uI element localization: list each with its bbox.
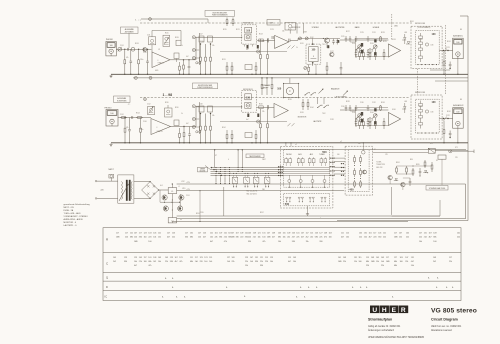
svg-text:68k: 68k [148,261,151,263]
resistor R142 inside join2 [419,123,423,126]
feedback box Z101 inner mark [151,39,154,42]
svg-text:500: 500 [358,143,361,145]
key switch box TA1 [232,177,238,183]
bus wire 4 [211,172,283,174]
svg-text:VG 805 stereo: VG 805 stereo [431,307,477,314]
svg-text:AUSGANG R: AUSGANG R [453,104,464,107]
resistor R170 mid dropper2 [326,62,328,66]
filter join module outer box [411,26,442,68]
wire lower return ch2 [220,121,287,123]
svg-text:FUSE : 2A: FUSE : 2A [64,209,74,212]
resistor R116 dropper [255,130,257,134]
svg-text:GERÄTE: GERÄTE [200,168,205,171]
resistor R120 series [266,105,268,109]
svg-text:Δ: Δ [226,286,228,289]
svg-text:1M0: 1M0 [231,237,235,239]
wire power feed riser x200 [199,191,201,222]
svg-text:123: 123 [179,257,182,259]
return rail channel 1 [133,77,468,79]
svg-text:22k: 22k [383,237,386,239]
resistor R305 [412,168,414,170]
svg-text:Q: Q [106,276,108,280]
svg-text:100: 100 [400,261,403,263]
svg-text:R207: R207 [260,212,264,214]
svg-text:105: 105 [406,233,409,235]
potentiometer P101 bass [358,45,362,49]
svg-text:2k2: 2k2 [424,237,427,239]
svg-text:22k: 22k [245,261,248,263]
svg-text:C131: C131 [372,32,376,34]
svg-text:117: 117 [394,233,397,235]
capacitor C107 to ground [188,60,190,67]
switch matrix module inner box bottom [284,193,330,206]
svg-text:LAUTSTÄRKE: LAUTSTÄRKE [335,96,348,99]
svg-text:115: 115 [265,257,268,259]
wire to filter stage ch2 [181,126,196,128]
resistor R138 inside join2 [419,110,423,113]
potentiometer diamond P103 [367,48,372,53]
svg-text:LAUTSPR. : 0: LAUTSPR. : 0 [64,224,78,227]
svg-text:S104: S104 [310,107,314,109]
svg-text:107: 107 [301,233,304,235]
wire 400 box output right [373,151,429,153]
svg-text:15k: 15k [376,261,379,263]
svg-text:47k: 47k [224,241,227,243]
connector ST301 [449,150,452,153]
svg-text:ST: ST [215,155,217,157]
svg-text:15k: 15k [158,237,161,239]
bridge rectifier GL1 [142,182,159,199]
svg-text:68k: 68k [190,237,193,239]
svg-text:UHER WERKE MÜNCHEN 562-4957: UHER WERKE MÜNCHEN 562-4957 790/9202/888… [368,336,424,339]
connector J2a [144,98,147,101]
wire regulator mid link [160,201,180,203]
power rail +21V [177,183,466,185]
svg-text:1k0: 1k0 [381,261,384,263]
transformer TR1 core [126,180,128,201]
UHER logo [370,306,408,314]
svg-text:123: 123 [200,257,203,259]
svg-text:105: 105 [113,257,116,259]
svg-text:Valid from ser. no. 19092 001: Valid from ser. no. 19092 001 [431,325,462,328]
svg-text:117: 117 [195,257,198,259]
svg-text:15k: 15k [399,237,402,239]
resistor R108 to ground [140,118,142,129]
wire op-amp U101 output [170,59,181,61]
resistor R106 to ground [124,118,126,129]
svg-text:220n: 220n [140,129,144,131]
svg-text:1k0: 1k0 [204,261,207,263]
svg-text:100: 100 [311,49,316,51]
svg-text:TA2 100 AUFN.: TA2 100 AUFN. [246,190,258,193]
resistor R123 series [259,39,263,42]
wire to filter stage [181,59,196,61]
feedback network box Z102 [163,35,170,46]
svg-text:TAST: TAST [262,158,266,161]
svg-text:330: 330 [319,241,322,243]
svg-text:STEREO: STEREO [312,27,320,29]
resistor R161 tone ch1 [363,49,365,53]
wire filter2 to amp [257,106,274,108]
svg-text:100: 100 [432,101,437,104]
svg-text:115: 115 [209,257,212,259]
svg-text:22k: 22k [165,261,168,263]
label box Geraetebuchse [198,167,208,172]
svg-text:E: E [392,307,397,314]
switch S103 ch2 [317,107,318,108]
svg-text:P104: P104 [370,112,374,114]
svg-text:Circuit Diagram: Circuit Diagram [431,317,458,321]
transistor fills Q201-Q204 [164,197,166,199]
svg-text:103: 103 [278,233,281,235]
svg-text:2k2: 2k2 [153,261,156,263]
svg-text:220: 220 [240,237,243,239]
fuse F1 [109,174,114,178]
resistor R110 to ground [183,127,185,133]
feedback box Z105 above U102 [285,23,296,31]
transistor Q104 join2 [425,110,428,113]
svg-text:10k: 10k [419,241,422,243]
svg-text:68k: 68k [366,261,369,263]
wire mute bottom [392,215,440,217]
wire automatic box drop [128,33,130,48]
regulator L1 box [168,188,176,194]
svg-text:330: 330 [185,237,188,239]
resistor R141 inside join [419,56,423,59]
svg-text:500: 500 [322,150,327,154]
capacitor C133 tone ch1 [349,36,351,38]
svg-text:220: 220 [200,261,203,263]
label box Aussumme Automatik [121,27,139,33]
transistor Q201 [162,195,167,200]
wire jack ground [457,59,459,75]
svg-text:68k: 68k [130,237,133,239]
capacitor C108 dropper mid [266,78,268,86]
key switch box TA2 [244,177,250,183]
transistor Q103 join [425,43,428,46]
svg-text:BUCHSE: BUCHSE [200,171,206,173]
svg-text:10k: 10k [153,237,156,239]
resistor R163 tone ch1 [369,49,371,53]
motor control module outer box [345,146,373,195]
svg-text:127: 127 [419,233,422,235]
switch S101 monitor [299,37,302,40]
svg-text:330: 330 [248,241,251,243]
svg-text:L5B: L5B [431,111,434,113]
svg-text:107: 107 [405,257,408,259]
wire feedback top channel 1 [151,31,153,37]
node join2 output [439,118,452,120]
switch matrix module outer box [280,146,333,208]
bus wire 3 [211,171,283,173]
svg-text:121: 121 [158,233,161,235]
svg-text:220: 220 [373,237,376,239]
svg-text:Δ: Δ [316,286,318,289]
motor control module inner box [348,150,369,192]
resistor R132 pot leg ch2 [359,118,361,122]
svg-text:R121: R121 [236,29,240,31]
filter join module inner box [416,31,440,65]
filter join bottom dots ch1 [417,64,418,65]
svg-text:220n: 220n [140,59,144,61]
wire regulator left riser [159,190,161,202]
svg-text:47k: 47k [324,237,327,239]
switch S105 mid [305,95,306,96]
wire mute links [397,173,414,175]
svg-text:100: 100 [277,87,282,90]
svg-text:Δ: Δ [352,286,354,289]
svg-text:101: 101 [457,233,460,235]
resistor R139 inside join [419,48,423,51]
matrix transistor 3 [311,180,314,183]
capacitor C105 to ground [147,49,149,61]
transistor Q202 [179,195,184,200]
svg-text:R133: R133 [381,32,385,34]
label box electronic function regler [193,83,218,89]
svg-text:100: 100 [456,42,459,44]
component box K101 [245,65,252,70]
svg-text:C128: C128 [330,119,334,121]
parts table frame [103,228,461,301]
svg-text:R109: R109 [175,37,179,39]
svg-text:LINE: LINE [303,32,306,34]
svg-text:C201: C201 [186,195,190,197]
resistor R159 dropper ch1 [267,39,269,55]
svg-text:TUNER: TUNER [319,154,325,156]
svg-text:117: 117 [449,257,452,259]
svg-text:4n7: 4n7 [246,49,249,51]
wire right riser A [465,184,467,219]
svg-text:Δ: Δ [452,286,454,289]
resistor R119 top [226,18,228,20]
capacitor C135 tone ch1 [355,49,357,53]
svg-text:131: 131 [262,233,265,235]
svg-text:R142: R142 [447,111,451,113]
matrix transistor 4 [323,180,326,183]
svg-text:Änderungen vorbehalten!: Änderungen vorbehalten! [368,329,395,332]
resistor R105 to ground [124,49,126,60]
key switch box TA3 [253,177,259,183]
wire secondary top [134,181,150,183]
node join output [439,50,452,52]
svg-text:GL1: GL1 [160,185,163,187]
svg-text:4k7: 4k7 [186,56,189,58]
svg-text:117: 117 [144,257,147,259]
transformer TR1 secondary winding [131,182,132,185]
svg-text:LED: LED [394,26,398,28]
svg-text:u1: u1 [295,144,297,146]
resistor R127 meter dropper [308,64,310,67]
svg-text:22k: 22k [405,261,408,263]
line amp module box ch1 [306,44,321,64]
capacitor C122 output jack 2 [449,131,451,134]
svg-text:115: 115 [359,257,362,259]
svg-text:330: 330 [236,237,239,239]
component box K110 ch1 [174,53,179,59]
resistor R130 ch2 [380,105,382,106]
svg-text:10k: 10k [282,31,285,33]
svg-text:U103: U103 [392,39,396,41]
svg-text:330: 330 [170,261,173,263]
wire mains neutral [97,197,118,199]
svg-text:R134: R134 [381,102,385,104]
svg-text:IC: IC [105,295,108,299]
connector column ch2 [198,102,200,134]
svg-text:131: 131 [255,257,258,259]
svg-text:R104: R104 [136,113,140,115]
svg-text:2k2: 2k2 [113,261,116,263]
svg-text:111: 111 [190,257,193,259]
svg-text:330: 330 [378,237,381,239]
capacitor C118 ch2 [355,105,357,107]
mechanical link dash vertical 3 [416,69,418,95]
capacitor C119 [367,36,369,38]
svg-text:68k: 68k [315,237,318,239]
svg-text:RL1: RL1 [430,143,433,145]
svg-text:22k: 22k [359,237,362,239]
svg-text:Δ: Δ [392,296,394,299]
resistor R153 dropper ch1 [205,44,207,57]
svg-text:10k: 10k [364,237,367,239]
svg-text:U106: U106 [392,109,396,111]
tone network dark capacitors ch2 [361,112,363,116]
svg-text:22k: 22k [319,237,322,239]
svg-text:ELEKTRONISCHER: ELEKTRONISCHER [213,12,228,14]
svg-text:1↔98: 1↔98 [163,93,173,97]
svg-text:123: 123 [124,257,127,259]
svg-text:10k: 10k [293,261,296,263]
resistor R157 dropper ch1 [260,39,262,55]
svg-text:LAUTSPR: LAUTSPR [313,120,322,123]
component box K105 ch1 [199,36,204,42]
svg-text:NETZ: NETZ [109,169,115,171]
right border top tick [460,15,468,17]
resistor R117 dropper [255,62,257,66]
svg-text:C111: C111 [147,35,151,37]
op-amp U105 [274,103,288,117]
400 box left junction dots [341,163,342,164]
resistor R154 dropper ch2 [205,114,207,127]
svg-text:L1: L1 [171,191,173,193]
svg-text:10k: 10k [212,45,215,47]
svg-text:117: 117 [185,233,188,235]
wire jack2 ground [457,128,459,143]
svg-text:109: 109 [433,257,436,259]
svg-text:121: 121 [383,233,386,235]
wire aux ch1 [430,69,450,71]
svg-text:S102: S102 [310,37,314,39]
svg-text:121: 121 [260,257,263,259]
switch S106 mid [311,95,312,96]
capacitor C109 [271,36,273,39]
wire border ch1 divider [435,80,468,82]
svg-text:GRL OFF: GRL OFF [376,167,383,169]
svg-text:117: 117 [116,233,119,235]
svg-text:4k7: 4k7 [292,237,295,239]
svg-text:⊥↓: ⊥↓ [128,103,131,106]
svg-text:u2: u2 [340,141,342,143]
resistor R140 inside join2 [419,116,423,119]
svg-text:1k0: 1k0 [227,261,230,263]
resistor R172 jack2 area [443,121,445,130]
wire lower return ch1 [220,51,287,53]
svg-text:4n7: 4n7 [246,119,249,121]
wire input to amp channel 1 [116,48,151,50]
wire riser mid [439,200,441,216]
wire L2 left [171,222,173,223]
parts table row line 2 [103,272,461,274]
svg-text:LS/SE: LS/SE [269,22,274,24]
svg-text:4k7: 4k7 [210,241,213,243]
svg-text:Alterations reserved: Alterations reserved [431,329,452,332]
transistor Q302 [401,182,405,186]
wire matrix ground drop [307,206,309,213]
wire matrix to 400 box 3 [334,166,345,168]
svg-text:22k: 22k [449,261,452,263]
wire Z105 drop [289,30,291,34]
svg-text:L5B: L5B [431,44,434,46]
svg-text:100: 100 [329,237,332,239]
svg-text:131: 131 [354,257,357,259]
svg-text:H: H [382,307,387,314]
svg-text:C: C [106,262,109,266]
tone network dark capacitors ch1 [361,43,363,47]
svg-text:R103: R103 [135,43,139,45]
svg-text:117: 117 [386,257,389,259]
component box K106 ch1 [208,36,213,42]
wire mute net b [403,177,410,179]
switch contact bank small 3 [224,178,226,183]
svg-text:400: 400 [349,188,354,192]
svg-text:AUSSUMME: AUSSUMME [117,97,126,100]
resistor R101 series [118,47,122,51]
label box Stummschaltung [426,186,448,191]
resistor R107 to ground [138,49,140,60]
svg-text:STUMMSCHALTUNG: STUMMSCHALTUNG [429,187,446,190]
wire matrix to 400 box 1 [334,157,345,159]
capacitor C305 mute [409,178,411,181]
svg-text:4k7: 4k7 [429,237,432,239]
motor control components column A [354,155,356,158]
svg-text:C116: C116 [341,106,345,108]
svg-text:2k2: 2k2 [433,261,436,263]
resistor R111 to ground [183,60,185,65]
resistor R166 tone ch2 [383,118,385,122]
svg-text:103: 103 [148,233,151,235]
svg-text:LED: LED [404,101,408,103]
key switch bus stubs [233,175,235,177]
wire monitor line [290,39,298,41]
svg-text:111: 111 [341,233,344,235]
svg-text:R136: R136 [419,106,423,108]
right border bottom [337,220,468,222]
ground symbol channel 1 [110,75,112,76]
svg-text:R119: R119 [223,29,227,31]
parts table row line 4 [103,290,461,292]
svg-text:220: 220 [224,237,227,239]
matrix diode pair 2 [298,197,300,199]
wire relay drop [441,159,443,185]
resistor R152 dropper ch2 [200,114,202,127]
potentiometer diamond P101 [356,47,361,52]
svg-text:101: 101 [224,233,227,235]
svg-text:R301: R301 [410,21,414,23]
svg-text:1k: 1k [181,113,183,115]
svg-text:1k0: 1k0 [144,237,147,239]
svg-text:107: 107 [250,257,253,259]
resistor R175 dropper ch1 [179,62,181,66]
svg-text:220: 220 [265,261,268,263]
